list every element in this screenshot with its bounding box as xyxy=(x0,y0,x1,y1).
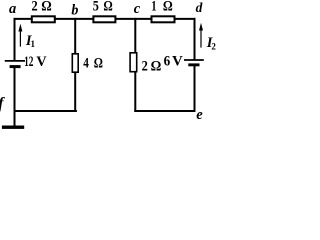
svg-text:12: 12 xyxy=(24,54,33,70)
resistor R1 2-ohm box xyxy=(32,16,55,22)
svg-text:2: 2 xyxy=(142,59,148,75)
resistor R3 1-ohm box xyxy=(152,16,175,22)
svg-text:1: 1 xyxy=(151,0,156,14)
svg-text:Ω: Ω xyxy=(163,0,173,14)
wire bottom right segment c-branch-to-e xyxy=(134,110,195,112)
svg-text:6: 6 xyxy=(164,53,171,69)
svg-text:4: 4 xyxy=(83,56,89,72)
svg-text:2: 2 xyxy=(32,0,38,14)
wire branch b vertical xyxy=(74,18,76,112)
wire top a-b-c-d xyxy=(14,18,196,20)
ground xyxy=(2,126,24,129)
battery B1 12V short plate xyxy=(10,65,21,68)
current arrow I1 xyxy=(18,24,22,47)
resistor R4 4-ohm box xyxy=(72,54,78,72)
svg-text:d: d xyxy=(196,0,203,15)
wire branch c vertical xyxy=(134,18,136,112)
resistor R5 2-ohm box xyxy=(130,53,137,72)
svg-text:1: 1 xyxy=(31,39,36,49)
svg-text:5: 5 xyxy=(93,0,99,14)
resistor R2 5-ohm box xyxy=(93,16,115,22)
svg-text:Ω: Ω xyxy=(103,0,112,14)
svg-text:Ω: Ω xyxy=(94,56,103,72)
svg-text:a: a xyxy=(9,1,16,17)
battery B1 12V long plate xyxy=(5,60,25,62)
svg-text:b: b xyxy=(71,3,78,19)
svg-text:V: V xyxy=(172,53,183,69)
wire left vertical from a down to battery B1 xyxy=(14,18,16,61)
current arrow I2 xyxy=(199,23,203,48)
svg-text:2: 2 xyxy=(211,42,216,52)
wire bottom left segment f-to-b-branch xyxy=(14,110,77,112)
wire right vertical from battery B2 down to e xyxy=(194,65,196,112)
battery B2 6V short plate xyxy=(188,63,199,66)
wire left vertical from battery B1 down to ground xyxy=(14,67,16,126)
svg-text:V: V xyxy=(36,54,47,70)
svg-text:Ω: Ω xyxy=(41,0,52,14)
battery B2 6V long plate xyxy=(184,59,204,61)
svg-text:Ω: Ω xyxy=(151,59,162,75)
wire right vertical from d down to battery B2 xyxy=(194,18,196,60)
svg-text:c: c xyxy=(134,1,141,17)
svg-text:e: e xyxy=(196,107,203,123)
